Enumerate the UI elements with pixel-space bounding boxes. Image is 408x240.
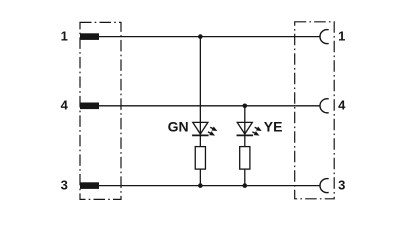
LED GN light arrow 1 (210, 126, 217, 131)
wire: GN branch lower (resistor to net 3) (199, 169, 201, 186)
LED GN cathode bar (192, 134, 209, 136)
svg-text:3: 3 (61, 178, 68, 193)
junction dot: net 3 / GN branch (198, 183, 203, 188)
resistor (GN branch) (195, 147, 205, 170)
LED YE triangle (anode) (237, 122, 252, 134)
socket contact 1 (right) (320, 30, 329, 44)
junction dot: net 3 / YE branch (243, 183, 248, 188)
pin 3 contact (left plug) (80, 182, 99, 189)
wire net 3 (99, 185, 320, 187)
wire net 4 (99, 105, 320, 107)
wire: GN branch upper (net1 to resistor) (199, 37, 201, 147)
socket contact 4 (right) (320, 99, 329, 113)
left connector housing outline (80, 22, 121, 199)
svg-text:1: 1 (61, 29, 68, 44)
pin 4 contact (left plug) (80, 103, 99, 110)
junction dot: net 1 / GN branch (198, 34, 203, 39)
LED GN triangle (anode) (193, 122, 208, 134)
junction dot: net 4 / YE branch (243, 104, 248, 109)
svg-text:YE: YE (264, 119, 283, 135)
pin 1 contact (left plug) (80, 33, 99, 40)
socket contact 3 (right) (320, 179, 329, 193)
LED YE light arrow 1 (255, 126, 262, 131)
svg-text:GN: GN (168, 119, 189, 135)
LED YE cathode bar (237, 134, 254, 136)
svg-text:4: 4 (61, 98, 69, 113)
wire: YE branch lower (resistor to net 3) (244, 169, 246, 186)
wire: YE branch upper (net4 to resistor) (244, 106, 246, 147)
right connector housing outline (295, 22, 335, 199)
wire net 1 (99, 36, 320, 38)
svg-text:4: 4 (338, 98, 346, 113)
resistor (YE branch) (240, 147, 250, 170)
svg-text:1: 1 (338, 29, 345, 44)
LED GN light arrow 2 (208, 131, 215, 136)
svg-text:3: 3 (338, 178, 345, 193)
LED YE light arrow 2 (252, 131, 259, 136)
